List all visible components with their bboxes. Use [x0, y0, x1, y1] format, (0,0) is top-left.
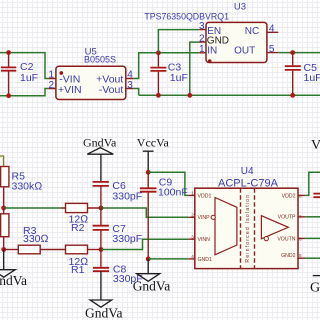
node OUT rail junction	[290, 50, 295, 55]
svg-text:1: 1	[48, 70, 54, 81]
wire between R3 and R1	[40, 249, 65, 251]
node bottom-left junction	[6, 93, 11, 98]
svg-text:Reinforced Isolation: Reinforced Isolation	[245, 194, 251, 263]
svg-text:1: 1	[199, 44, 205, 55]
svg-text:VINP: VINP	[198, 215, 211, 221]
svg-text:VDD2: VDD2	[282, 193, 296, 199]
svg-text:8: 8	[299, 193, 302, 198]
svg-text:VOUTP: VOUTP	[278, 215, 296, 221]
U4 modulator trapezoid	[215, 198, 237, 255]
svg-text:330pF: 330pF	[112, 191, 142, 203]
node R5 foot junction	[1, 206, 6, 211]
resistor R2	[62, 203, 102, 234]
wire U5 pin 4 up to IN rail	[133, 53, 199, 79]
svg-text:VccVa: VccVa	[137, 136, 170, 150]
wire VINP row right into U4	[101, 208, 188, 217]
wire GND2 to right edge	[305, 257, 320, 259]
svg-text:-Vout: -Vout	[99, 84, 124, 96]
capacitor right edge (cut)	[313, 194, 320, 198]
U4 input bubble	[211, 215, 215, 219]
wire GND pin down to ground rail	[190, 42, 199, 95]
resistor R5	[1, 167, 43, 209]
ground GndVa bottom (below C8)	[85, 300, 123, 320]
node IN rail junction	[156, 50, 161, 55]
power VccVa	[137, 136, 170, 173]
svg-text:NC: NC	[245, 26, 259, 37]
node top-left junction	[6, 50, 11, 55]
svg-text:GND2: GND2	[281, 253, 296, 259]
node C6 C7 junction	[99, 206, 104, 211]
node ground rail junction at C3	[156, 93, 161, 98]
svg-text:330Ω: 330Ω	[23, 233, 49, 245]
svg-text:2: 2	[199, 33, 205, 44]
svg-text:U4: U4	[241, 166, 254, 177]
svg-text:VINN: VINN	[198, 237, 211, 243]
svg-text:1uF: 1uF	[304, 72, 320, 84]
svg-text:1: 1	[191, 191, 194, 196]
svg-text:TPS76350QDBVRQ1: TPS76350QDBVRQ1	[144, 11, 229, 21]
U4 isolation dashed line left	[240, 188, 242, 268]
svg-text:VOUTN: VOUTN	[277, 236, 295, 242]
capacitor C2	[1, 53, 38, 96]
wire GND1 row	[148, 258, 188, 260]
ground GndVa left	[0, 250, 27, 288]
node C9 ground junction	[146, 257, 151, 262]
capacitor C9	[140, 172, 188, 259]
U4 output bubble	[264, 237, 268, 241]
wire OUT rail to right edge	[278, 52, 320, 54]
svg-text:B0505S: B0505S	[84, 54, 116, 64]
wire EN connect	[158, 30, 199, 53]
svg-text:VDD1: VDD1	[198, 193, 212, 199]
svg-text:GndVa: GndVa	[85, 305, 123, 320]
U4 pin stubs right	[298, 195, 305, 258]
U4 output amplifier triangle	[261, 216, 288, 239]
connector edge stub (dark yellow, cut off at left)	[0, 156, 4, 167]
node C7 C8 junction	[99, 247, 104, 252]
isolation amplifier U4 ACPL-C79A	[188, 166, 305, 269]
wire bottom-left rail into U5 pin 2	[0, 89, 49, 96]
wire U5 pin 3 down to ground rail	[133, 89, 138, 96]
svg-text:2: 2	[48, 80, 54, 91]
resistor R3	[4, 225, 49, 254]
svg-text:1uF: 1uF	[170, 72, 188, 84]
node ground rail junction at C5	[290, 93, 295, 98]
capacitor C6	[93, 180, 143, 208]
node R3 junction	[1, 247, 6, 252]
ground GndVa top (above C6)	[83, 136, 117, 183]
svg-text:GndVa: GndVa	[133, 279, 171, 294]
wire VDD2 to top right	[305, 172, 320, 195]
svg-text:1uF: 1uF	[20, 72, 38, 84]
svg-text:3: 3	[199, 21, 205, 32]
svg-text:5: 5	[299, 253, 302, 258]
resistor R4 (between dividers)	[1, 208, 9, 250]
svg-text:3: 3	[191, 234, 194, 239]
svg-text:GND1: GND1	[198, 257, 213, 263]
dc-dc converter U5 B0505S	[48, 46, 133, 99]
svg-text:R2: R2	[71, 222, 85, 234]
svg-text:OUT: OUT	[234, 46, 255, 57]
svg-text:U3: U3	[234, 2, 246, 13]
wire ground rail to right edge	[139, 94, 320, 96]
svg-text:2: 2	[191, 213, 194, 218]
svg-text:IN: IN	[207, 46, 217, 57]
svg-text:5: 5	[269, 44, 275, 55]
svg-text:7: 7	[299, 215, 302, 220]
capacitor C5	[285, 53, 320, 96]
node VccVa junction	[146, 170, 151, 175]
node ground rail junction at GND drop	[187, 93, 192, 98]
svg-text:100nF: 100nF	[158, 186, 188, 198]
svg-text:4: 4	[127, 70, 133, 81]
svg-text:4: 4	[191, 254, 194, 259]
svg-text:330kΩ: 330kΩ	[12, 180, 43, 192]
wire top-left rail into U5 pin 1	[0, 53, 49, 79]
wire VINN row into U4	[101, 239, 188, 249]
capacitor C8	[93, 250, 143, 301]
svg-text:330pF: 330pF	[112, 233, 142, 245]
svg-text:R1: R1	[71, 264, 85, 276]
svg-text:ACPL-C79A: ACPL-C79A	[218, 177, 279, 189]
resistor R1	[66, 245, 102, 276]
ground GndVa under C9	[133, 259, 171, 294]
svg-text:Vc: Vc	[311, 138, 320, 153]
ground GndVb bottom right (cut)	[310, 276, 320, 296]
wire VOUTN to right edge	[305, 237, 320, 239]
svg-text:3: 3	[127, 80, 133, 91]
U4 isolation dashed line right	[254, 188, 256, 268]
svg-text:+VIN: +VIN	[58, 84, 82, 96]
svg-text:G: G	[310, 281, 320, 296]
wire VOUTP to right edge	[305, 216, 320, 218]
svg-text:6: 6	[299, 236, 302, 241]
wire VccVa to U4 VDD1	[148, 172, 188, 195]
capacitor C3	[150, 53, 187, 96]
svg-text:4: 4	[269, 24, 275, 35]
svg-text:GndVa: GndVa	[0, 273, 27, 288]
ldo regulator U3 TPS76350QDBVRQ1	[144, 2, 278, 63]
U4 pin stubs left	[188, 195, 195, 259]
wire VINP row left	[4, 207, 62, 209]
capacitor C7	[93, 208, 143, 250]
